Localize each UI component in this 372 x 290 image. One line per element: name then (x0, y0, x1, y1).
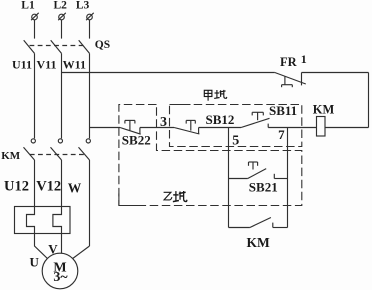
wire SB21 to node7 rail (274, 178, 287, 180)
svg-text:1: 1 (301, 52, 307, 66)
wire W11 tap to SB22 (90, 127, 121, 129)
svg-text:KM: KM (313, 102, 335, 116)
wire FR to top right corner (302, 72, 369, 74)
contactor KM auxiliary contact (NO) (250, 218, 273, 228)
svg-text:FR: FR (280, 55, 298, 69)
wire right edge down to coil row (368, 73, 370, 128)
motor M (42, 253, 78, 289)
svg-text:U: U (30, 254, 40, 269)
wire L3 to QS (89, 20, 91, 39)
wire node5 to SB21 (229, 178, 248, 180)
svg-text:L2: L2 (53, 0, 67, 11)
wire SB22 to SB12 (node 3) (140, 127, 174, 129)
svg-text:SB21: SB21 (249, 180, 278, 195)
terminal L3 (76, 0, 94, 20)
wire L1 to QS (34, 20, 36, 39)
wire SB12 to SB11 (node 5) (199, 127, 241, 129)
svg-text:L1: L1 (21, 0, 35, 11)
wire control top rail from V11 to FR (62, 72, 275, 74)
thermal relay FR heater element phase 2 (53, 207, 62, 234)
svg-text:3: 3 (160, 115, 167, 130)
svg-text:U11: U11 (12, 57, 32, 71)
contactor KM main contact pole 3 (79, 139, 91, 160)
svg-text:QS: QS (95, 39, 110, 51)
wire node5 rail to KM aux contact (229, 227, 250, 229)
wire right edge to KM coil (325, 127, 369, 129)
svg-text:W: W (68, 181, 82, 196)
switch QS pole 2 blade (51, 40, 62, 53)
thermal relay contact FR (NC) (275, 73, 306, 88)
svg-text:U12: U12 (4, 179, 29, 195)
svg-text:SB12: SB12 (206, 112, 235, 127)
wire KM aux to node7 rail (273, 227, 288, 229)
contactor KM main linkage dashed (30, 154, 84, 156)
location label 甲地 (204, 90, 227, 101)
pushbutton SB12 (NC) (174, 120, 199, 134)
terminal L1 (21, 0, 38, 20)
wire KM pole1 down (34, 160, 36, 207)
location box 乙地 corner solid runs (119, 105, 191, 206)
wire heater 1 to motor U (35, 234, 48, 259)
svg-text:SB11: SB11 (269, 103, 297, 118)
thermal relay FR heater element phase 1 (27, 207, 35, 234)
wire L2 to QS (61, 20, 63, 39)
svg-text:3~: 3~ (53, 270, 68, 285)
wire node 5 rail down (228, 128, 230, 228)
thermal relay FR heater box (15, 207, 71, 234)
wire V11 phase down to KM contact (61, 53, 63, 138)
wire W11 phase down to KM contact (89, 53, 91, 138)
svg-text:V11: V11 (36, 57, 56, 71)
pushbutton SB11 (NO) (241, 112, 270, 127)
pushbutton SB21 (NO) (248, 162, 275, 179)
svg-text:L3: L3 (76, 0, 90, 11)
wire U11 phase down to KM contact (34, 53, 36, 138)
coil KM (317, 117, 326, 137)
svg-text:KM: KM (247, 235, 271, 250)
location box 乙地 dashed outline (119, 105, 302, 206)
contactor KM main contact pole 1 (24, 139, 36, 160)
svg-text:W11: W11 (63, 57, 86, 71)
terminal L2 (53, 0, 67, 20)
wire phase 3 to motor W (73, 246, 90, 259)
location label 乙地 (164, 191, 187, 202)
svg-text:V: V (48, 241, 58, 256)
contactor KM main contact pole 2 (51, 139, 63, 160)
switch QS pole 1 blade (24, 40, 35, 53)
wire KM pole2 down (61, 160, 63, 207)
svg-text:V12: V12 (36, 179, 61, 195)
wire coil to node 7 rail (268, 127, 316, 129)
location box 甲地 dashed rectangle (170, 105, 302, 147)
svg-text:7: 7 (278, 127, 285, 142)
switch QS pole 3 blade (79, 40, 90, 53)
wire heater 2 to motor V (61, 234, 63, 254)
svg-text:SB22: SB22 (122, 133, 151, 148)
switch QS linkage dashed (30, 45, 84, 47)
svg-text:KM: KM (1, 150, 21, 162)
pushbutton SB22 (NC) (120, 120, 141, 134)
wire node 7 rail down (287, 128, 289, 228)
wire KM pole3 down to motor (89, 160, 91, 246)
